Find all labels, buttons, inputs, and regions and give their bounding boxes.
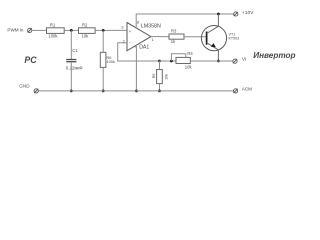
- junction pin 4 ground: [135, 90, 138, 93]
- wire R5 node down: [159, 61, 161, 70]
- svg-text:10k: 10k: [164, 74, 168, 80]
- terminal +10V: [234, 12, 238, 16]
- resistor R6: [100, 52, 106, 67]
- svg-text:DA1: DA1: [139, 44, 149, 50]
- terminal PWM in: [28, 28, 32, 32]
- junction C1 ground: [70, 90, 73, 93]
- wire R4 to emitter node and Vi: [190, 60, 232, 62]
- wire C1 to ground rail: [70, 62, 72, 91]
- transistor base bar: [206, 32, 208, 45]
- capacitor C1: [66, 60, 76, 62]
- transistor emitter lead: [207, 43, 219, 61]
- svg-text:Инвертор: Инвертор: [253, 51, 295, 60]
- svg-text:R5: R5: [152, 74, 156, 79]
- svg-text:0.22мкФ: 0.22мкФ: [66, 66, 83, 71]
- terminal Vi: [233, 59, 237, 63]
- wire pin 8 to +10V rail: [136, 14, 233, 28]
- svg-text:100k: 100k: [48, 34, 58, 39]
- terminal GND: [34, 89, 38, 93]
- wire op-amp pin 2 feedback: [118, 43, 160, 61]
- resistor R5: [157, 70, 163, 84]
- transistor Q1 VT1 circle: [201, 25, 226, 50]
- svg-text:Vi: Vi: [242, 56, 246, 61]
- wire pin 4 to ground rail: [135, 45, 137, 91]
- transistor collector lead: [207, 14, 219, 34]
- svg-text:100k: 100k: [107, 60, 115, 64]
- op-amp U1 DA1 triangle: [127, 23, 151, 51]
- node R6 tap: [102, 29, 105, 32]
- svg-text:GND: GND: [19, 84, 30, 89]
- svg-text:10k: 10k: [82, 34, 90, 39]
- ground rail wire: [38, 90, 233, 92]
- svg-text:R1: R1: [50, 22, 56, 27]
- wire R3 to base: [184, 36, 206, 38]
- svg-text:3: 3: [121, 26, 123, 30]
- junction collector on +10V rail: [217, 13, 220, 16]
- svg-text:R3: R3: [171, 28, 177, 33]
- wire R2 to op-amp pin 3: [95, 29, 127, 31]
- resistor R1: [47, 28, 65, 34]
- svg-text:+10V: +10V: [242, 10, 254, 16]
- wire op-amp output to R3: [151, 36, 169, 38]
- node C1 tap: [70, 29, 73, 32]
- emitter arrow: [211, 43, 216, 47]
- wire R5 node to R4 node: [160, 60, 177, 62]
- wire R4 wiper loop: [171, 54, 185, 61]
- wire R5 to ground rail: [159, 84, 161, 91]
- wire R6 to ground rail: [102, 67, 104, 91]
- junction R6 ground: [102, 90, 105, 93]
- junction R5 ground: [158, 90, 161, 93]
- svg-text:R2: R2: [82, 22, 88, 27]
- wire node to R6: [102, 30, 104, 52]
- terminal ACM: [234, 89, 238, 93]
- resistor R4 trimmer: [176, 57, 190, 63]
- svg-text:KT503: KT503: [229, 36, 240, 40]
- wire R1 to R2: [64, 29, 78, 31]
- svg-text:+: +: [129, 29, 132, 34]
- junction emitter on Vi line: [217, 60, 220, 63]
- resistor R2: [79, 28, 96, 34]
- wire PWM to R1: [32, 29, 47, 31]
- svg-text:PC: PC: [24, 55, 37, 65]
- svg-text:8: 8: [137, 20, 139, 24]
- svg-text:R4: R4: [187, 51, 193, 56]
- svg-text:C1: C1: [72, 48, 78, 53]
- node R4 wiper tap: [170, 60, 173, 63]
- resistor R3: [169, 34, 184, 39]
- svg-text:PWM in: PWM in: [7, 27, 24, 32]
- svg-text:ACM: ACM: [242, 87, 252, 92]
- wire node to C1: [70, 30, 72, 59]
- node R5 tap: [158, 60, 161, 63]
- svg-text:1: 1: [152, 38, 154, 42]
- svg-text:10k: 10k: [185, 65, 193, 70]
- svg-text:LM358N: LM358N: [141, 24, 161, 30]
